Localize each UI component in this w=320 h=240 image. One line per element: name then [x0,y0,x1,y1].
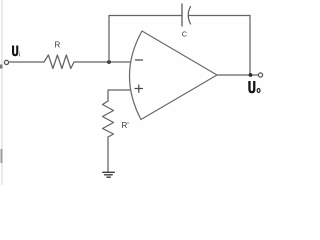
pin label plus non-inverting input [135,85,143,92]
wire feedback top right [189,15,251,17]
input terminal ui [4,60,8,64]
node B output junction [249,73,253,77]
capacitor C right curved plate [188,7,190,25]
wire non-inverting input [108,90,130,101]
wire input to resistor R [9,61,44,63]
wire resistor R to inverting input node [74,61,130,63]
svg-text:R': R' [122,121,130,130]
scan artifact: faint left border line [0,0,3,185]
wire feedback vertical down [249,16,251,76]
wire feedback vertical up [108,16,110,63]
resistor R [44,55,74,69]
output terminal uo [258,73,262,77]
wire output [217,74,258,76]
capacitor C left plate [181,4,183,26]
wire feedback top left [109,15,182,17]
label ui [12,46,20,57]
resistor R' [103,101,114,137]
svg-text:C: C [182,29,188,38]
ground [103,172,115,177]
wire R' to ground [107,137,109,172]
node A junction at inverting input [107,60,111,64]
svg-text:R: R [55,41,61,50]
label uo [248,81,260,93]
pin label minus inverting input [136,59,143,61]
op-amp U1 [129,31,217,120]
